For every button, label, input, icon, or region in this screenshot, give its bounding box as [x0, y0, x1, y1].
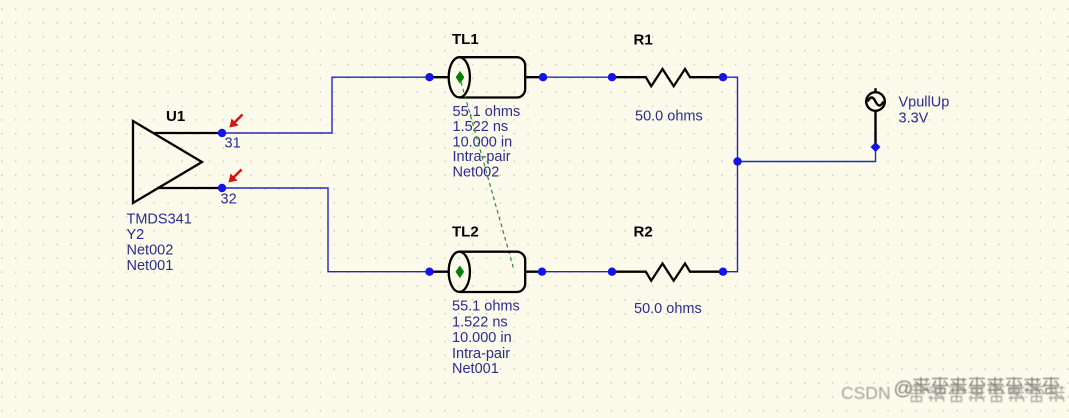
svg-text:50.0 ohms: 50.0 ohms — [635, 109, 703, 125]
node TL2 right dot — [538, 268, 546, 276]
node TL1 right dot — [539, 73, 547, 81]
svg-text:1.522 ns: 1.522 ns — [452, 314, 508, 330]
node TL1 left dot — [425, 73, 433, 81]
resistor R1 — [612, 69, 723, 86]
svg-text:CSDN: CSDN — [841, 383, 891, 403]
intra-pair coupling dashed line — [461, 82, 514, 270]
pin select arrow 1 — [230, 115, 243, 128]
svg-text:1.522 ns: 1.522 ns — [453, 119, 509, 135]
svg-text:32: 32 — [221, 192, 237, 208]
wire right bus R1-R2 vertical — [723, 77, 738, 272]
TL1 coupling diamond — [456, 71, 465, 84]
voltage source VpullUp — [866, 88, 885, 147]
TL1 value labels — [453, 104, 521, 180]
svg-text:Net002: Net002 — [127, 243, 174, 259]
node pin32 dot — [218, 184, 226, 192]
svg-text:@: @ — [894, 378, 914, 400]
svg-text:Y2: Y2 — [127, 227, 145, 243]
node VpullUp pin diamond — [871, 142, 881, 152]
transmission line TL1 — [430, 57, 544, 97]
wire net002 top: pin31 to TL1 — [222, 77, 430, 133]
svg-text:55.1 ohms: 55.1 ohms — [453, 104, 521, 120]
svg-text:Net001: Net001 — [452, 361, 499, 377]
wire TL2 to R2 — [542, 271, 612, 273]
svg-text:U1: U1 — [166, 108, 185, 125]
svg-text:Net001: Net001 — [127, 258, 174, 274]
TL2 value labels — [452, 299, 520, 377]
op-amp U1 buffer triangle — [133, 121, 202, 203]
resistor R2 — [612, 264, 723, 281]
svg-text:R2: R2 — [634, 224, 653, 241]
pin select arrow 2 — [229, 170, 242, 183]
svg-text:VpullUp: VpullUp — [899, 95, 950, 111]
node R1 right dot — [719, 73, 727, 81]
wire junction to VpullUp — [738, 147, 876, 162]
svg-text:10.000 in: 10.000 in — [452, 330, 512, 346]
svg-text:R1: R1 — [634, 32, 653, 49]
svg-text:TMDS341: TMDS341 — [127, 212, 192, 228]
svg-text:10.000 in: 10.000 in — [453, 134, 513, 150]
pin 31 stub — [153, 132, 222, 134]
svg-text:TL1: TL1 — [452, 31, 479, 48]
svg-text:3.3V: 3.3V — [899, 111, 929, 127]
transmission line TL2 — [430, 252, 543, 292]
node R2 right dot — [719, 268, 727, 276]
node pin31 dot — [218, 129, 226, 137]
svg-text:Intra-pair: Intra-pair — [452, 346, 510, 362]
TL2 coupling diamond — [456, 266, 465, 279]
U1 value labels — [127, 212, 192, 275]
svg-text:55.1 ohms: 55.1 ohms — [452, 299, 520, 315]
svg-text:50.0 ohms: 50.0 ohms — [634, 301, 702, 317]
pin 32 stub — [157, 187, 222, 189]
node R1 left dot — [608, 73, 616, 81]
node junction dot (bus to VpullUp) — [733, 157, 741, 165]
svg-text:31: 31 — [225, 136, 241, 152]
svg-text:Net002: Net002 — [453, 164, 500, 180]
svg-text:TL2: TL2 — [452, 224, 479, 241]
wire TL1 to R1 — [543, 76, 612, 78]
wire net001 bottom: pin32 to TL2 — [222, 188, 430, 272]
node TL2 left dot — [425, 268, 433, 276]
node R2 left dot — [608, 268, 616, 276]
